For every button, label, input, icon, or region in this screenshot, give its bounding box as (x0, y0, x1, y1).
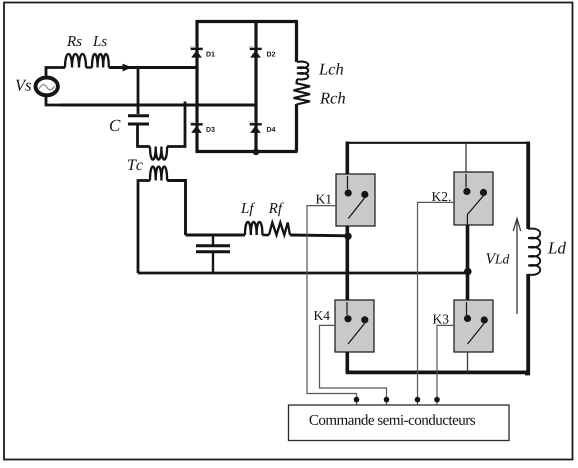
label K3 (433, 315, 449, 324)
capacitor Cf stub top (212, 236, 214, 245)
wire top input line with arrow (109, 64, 197, 72)
label D2 (267, 52, 275, 57)
H-bridge right rail (526, 142, 530, 230)
label K4 (314, 311, 330, 320)
inductor Lf (245, 222, 262, 235)
diode D3 (190, 122, 203, 133)
node bridge mid-bottom junction (253, 149, 259, 155)
label Rs (67, 36, 82, 46)
switch K3 (454, 300, 493, 352)
wire K2 bottom to K3 top (466, 225, 470, 300)
node control dot 4 (434, 397, 440, 403)
label Ld (548, 242, 566, 254)
label Lch (319, 63, 343, 75)
label Lf (241, 202, 255, 216)
label D3 (206, 127, 214, 132)
label Rch (320, 92, 345, 104)
arrow VLd (513, 219, 520, 315)
resistor Rch (294, 79, 311, 104)
label K2 (432, 192, 451, 201)
label Ls (93, 36, 107, 46)
node control dot 1 (354, 397, 360, 403)
capacitor C (128, 116, 149, 124)
wire C to Tc primary (138, 126, 151, 147)
diode D1 (190, 47, 203, 58)
wire bottom input line (60, 104, 256, 107)
label VLd (486, 253, 496, 263)
inductor Ld (528, 229, 540, 275)
node control dot 3 (415, 397, 421, 403)
wire K2 control line (418, 202, 455, 405)
wire K1 control line (307, 206, 357, 405)
bridge top rail (196, 20, 299, 23)
transformer Tc primary winding (150, 147, 167, 160)
bridge bottom rail (196, 150, 298, 153)
switch K4 (335, 300, 374, 352)
wire bridge middle leg (254, 22, 257, 154)
wire bottom long line to K2K3 midpoint (138, 272, 468, 275)
wire K3 bottom lead (467, 352, 469, 372)
wire Vs top lead (46, 68, 65, 78)
resistor Rf (269, 223, 290, 236)
source Vs (36, 78, 58, 96)
label C (110, 120, 121, 131)
wire Tc primary right lead (167, 102, 185, 147)
wire Rf to node A (290, 234, 349, 238)
switch K2 (454, 172, 493, 225)
wire Rs-Ls (86, 66, 92, 68)
capacitor Cf (196, 246, 230, 252)
wire K1 bottom to K4 top (345, 226, 349, 300)
H-bridge bottom rail (346, 370, 529, 374)
wire Cf stub bottom (212, 253, 214, 273)
diode D2 (249, 47, 262, 58)
transformer Tc secondary winding (150, 166, 167, 180)
label Rf (269, 202, 284, 216)
wire Lf-Rf (262, 234, 269, 237)
label D4 (267, 127, 275, 132)
wire Vs bottom lead (46, 96, 60, 106)
wire Tc secondary left lead down (138, 181, 150, 274)
node A junction dot (344, 233, 351, 240)
wire C branch vertical (137, 68, 140, 115)
label Vs (16, 80, 31, 91)
wire K1 top lead (345, 142, 349, 175)
wire Tc secondary right lead down (167, 181, 185, 236)
label K1 (316, 195, 331, 204)
label D1 (206, 52, 214, 57)
wire K3 control line (437, 325, 454, 405)
inductor Ls (92, 54, 109, 68)
wire bridge right leg upper (295, 22, 298, 63)
wire K4 bottom lead (345, 352, 349, 374)
inductor Lch (297, 62, 308, 80)
resistor Rs (65, 54, 86, 68)
wire bridge right leg lower (295, 104, 298, 152)
wire filter line to Lf (186, 234, 246, 237)
label Commande semi-conducteurs (310, 414, 476, 425)
wire K4 control line (320, 325, 387, 405)
diode D4 (249, 122, 262, 133)
switch K1 (336, 174, 375, 226)
H-bridge top rail (346, 142, 530, 144)
label Tc (128, 160, 143, 171)
node control dot 2 (384, 397, 390, 403)
node B junction dot (464, 268, 472, 276)
control box Commande semi-conducteurs (289, 405, 510, 441)
wire bridge left leg (195, 22, 198, 152)
wire K2 top lead (465, 143, 467, 172)
